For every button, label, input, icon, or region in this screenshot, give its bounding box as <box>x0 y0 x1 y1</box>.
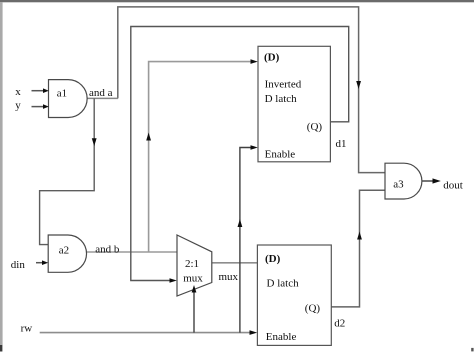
svg-text:Enable: Enable <box>265 148 296 160</box>
svg-text:(Q): (Q) <box>305 303 321 315</box>
svg-text:Enable: Enable <box>266 331 297 343</box>
svg-text:mux: mux <box>219 271 239 283</box>
svg-text:d2: d2 <box>334 318 345 330</box>
svg-text:(D): (D) <box>264 51 280 63</box>
svg-text:D latch: D latch <box>267 278 300 290</box>
svg-text:a2: a2 <box>59 245 69 257</box>
svg-text:x: x <box>15 86 21 98</box>
svg-text:and a: and a <box>89 87 113 99</box>
svg-text:D latch: D latch <box>265 93 298 105</box>
svg-text:d1: d1 <box>336 138 347 150</box>
svg-text:a1: a1 <box>57 87 67 99</box>
svg-text:rw: rw <box>21 323 33 335</box>
svg-text:and b: and b <box>95 243 120 255</box>
svg-text:(Q): (Q) <box>307 121 323 133</box>
svg-text:Inverted: Inverted <box>265 79 302 91</box>
svg-text:(D): (D) <box>265 253 281 265</box>
svg-text:y: y <box>15 99 21 111</box>
svg-text:din: din <box>11 259 26 271</box>
svg-text:2:1: 2:1 <box>185 258 199 270</box>
svg-text:mux: mux <box>183 273 203 285</box>
svg-text:dout: dout <box>443 180 463 192</box>
svg-text:a3: a3 <box>393 178 404 190</box>
